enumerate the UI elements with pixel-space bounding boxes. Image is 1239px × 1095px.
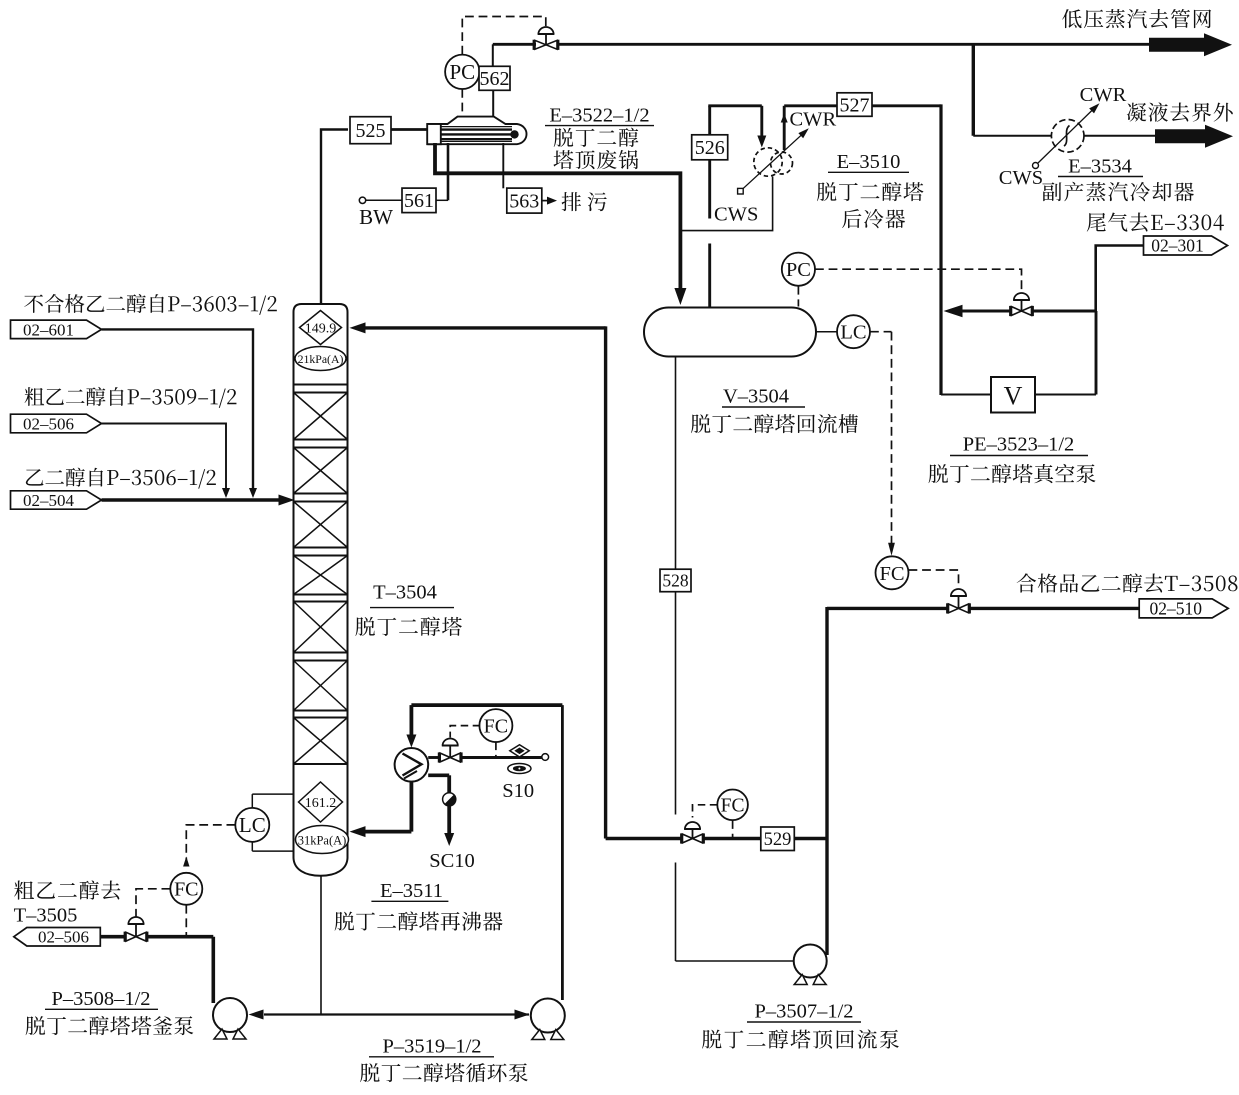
label: EG from P-3506-1/2 (26, 468, 216, 489)
instrument signal: FC to bottoms valve (dashed) (136, 889, 170, 917)
pipe: E-3511 outlet back to column bottom with arrow (409, 782, 413, 832)
svg-text:P–3508–1/2: P–3508–1/2 (51, 988, 150, 1010)
bottoms pump P-3508-1/2 (213, 998, 247, 1032)
pipe: column bottom outlet to pumps suction header (320, 876, 322, 1015)
stream box 02-506 (feed inlet) (11, 414, 102, 433)
cooler E-3534 (by-product steam cooler) (1051, 120, 1084, 153)
svg-text:02–301: 02–301 (1151, 236, 1204, 256)
reboiler E-3511 (circle with chevron) (395, 748, 429, 782)
svg-text:21kPa(A): 21kPa(A) (298, 352, 344, 366)
svg-text:T–3505: T–3505 (14, 905, 78, 927)
label: crude EG from P-3509-1/2 (25, 387, 237, 408)
cooling water annotation on E-3510 (CWS-CWR diagonal) (738, 188, 744, 194)
line number box 526 (692, 135, 728, 160)
kettle channel head (left box) (427, 124, 441, 144)
pipe: P-3519 discharge riser to reboiler E-3511 (561, 705, 564, 1000)
svg-text:T–3504: T–3504 (373, 581, 437, 603)
pipe: BW (boiler water) inlet to kettle (359, 197, 365, 203)
svg-text:527: 527 (840, 94, 870, 116)
pipe: reflux line from riser through 529 and valve to column top (795, 837, 828, 840)
line number box 563 (507, 188, 542, 213)
svg-text:LC: LC (840, 322, 866, 344)
pipe: kettle condensate to reflux drum V-3504 (435, 143, 680, 290)
instrument PC on vacuum system (782, 253, 815, 286)
utility station symbol S10 (diamond above line) (510, 745, 529, 757)
svg-text:E–3511: E–3511 (380, 880, 443, 902)
kettle exchanger E-3522-1/2 (waste heat boiler) (428, 117, 526, 145)
line number box 528 (660, 569, 691, 592)
svg-text:PC: PC (786, 259, 811, 281)
svg-text:CWS: CWS (714, 204, 758, 226)
node: pressure ellipse 21kPa(A) at column top (295, 347, 346, 371)
pipe: condensate out of E-3534 (1084, 135, 1157, 137)
pipe: vacuum suction line down to pump PE-3523 (939, 104, 942, 395)
instrument signal: FC to pipe tap (dashed) (185, 905, 187, 935)
pipe: 02-506 feed line (102, 424, 227, 491)
svg-text:02–510: 02–510 (1149, 599, 1202, 619)
stream box 02-301 (tail gas outlet) (1144, 236, 1228, 255)
svg-text:528: 528 (662, 571, 689, 591)
pipe: product line to T-3508 (827, 607, 949, 610)
pipe: vacuum recycle line (pump discharge back to suction) (1032, 310, 1097, 313)
svg-text:02–506: 02–506 (38, 928, 89, 947)
svg-text:529: 529 (764, 830, 792, 850)
svg-text:31kPa(A): 31kPa(A) (298, 833, 347, 847)
svg-text:E–3534: E–3534 (1068, 156, 1132, 178)
utility station symbol S10 (ellipse below line) (508, 764, 531, 774)
pipe: kettle blowdown to 563 (502, 143, 504, 188)
vacuum pump V box PE-3523-1/2 (991, 377, 1035, 413)
instrument signal: PC to vacuum control valve (dashed) (815, 269, 1022, 292)
off-page fat arrow: condensate to battery limit (1155, 125, 1233, 148)
instrument signal: LC to FC cascade (dashed) (186, 825, 235, 869)
instrument FC on steam line (479, 709, 512, 742)
pipe: tail gas line from vacuum pump to 02-301 (1096, 246, 1144, 313)
svg-text:525: 525 (356, 120, 386, 142)
stream box 02-601 (feed inlet) (11, 320, 102, 339)
circulation pump P-3519-1/2 (531, 999, 565, 1033)
svg-text:E–3510: E–3510 (837, 151, 901, 173)
label: qualified EG to T-3508 (1017, 573, 1238, 592)
label: tail gas to E-3304 (1087, 212, 1224, 231)
node: temperature diamond 149.9 at column top (300, 311, 342, 345)
column T-3504 shell (294, 304, 348, 876)
node: temperature diamond 161.2 at column bottom (299, 782, 343, 822)
line number box 525 (350, 117, 391, 144)
instrument FC on product line (876, 556, 909, 589)
control valve on bottoms line (128, 917, 143, 924)
label: condensate to outside battery limit (1127, 102, 1233, 121)
off-page fat arrow: LP steam to pipe network (1149, 33, 1232, 56)
svg-text:CWS: CWS (999, 167, 1043, 189)
svg-text:LC: LC (239, 813, 266, 837)
steam trap on SC10 line (443, 793, 456, 806)
svg-text:02–504: 02–504 (23, 491, 75, 510)
column packing sections with X pattern (294, 384, 348, 386)
line number box 561 (402, 188, 436, 213)
instrument FC on reflux line (717, 790, 748, 821)
instrument PC-562 (pressure controller) (445, 55, 479, 89)
stream box 02-506 (bottoms outlet, left pointing) (14, 928, 101, 947)
svg-text:561: 561 (404, 190, 434, 212)
stream box 02-510 (product outlet) (1139, 599, 1228, 618)
pipe 526: drum vapor riser to E-3510 header (with crossing break) (708, 106, 711, 159)
pipe: 02-601 feed line (102, 329, 254, 490)
pipe: steam branch down to E-3534 (972, 43, 975, 136)
pipe: reflux return into column top with arrow (364, 326, 606, 329)
svg-text:PE–3523–1/2: PE–3523–1/2 (963, 434, 1075, 456)
svg-text:562: 562 (480, 68, 510, 90)
pipe: main feed line into column (102, 498, 281, 502)
instrument LC at column bottom with standpipe taps (252, 793, 293, 795)
instrument LC on drum (816, 331, 838, 333)
svg-text:563: 563 (509, 190, 539, 212)
instrument signal: PC to kettle dome (dashed) (461, 89, 463, 116)
label: LP steam to pipe network (1062, 9, 1211, 28)
pipe: header into cooler E-3510 (708, 104, 762, 107)
svg-text:FC: FC (879, 563, 904, 585)
line number box 562 (479, 66, 510, 90)
svg-text:526: 526 (695, 137, 725, 159)
line number box 527 (837, 93, 872, 117)
pipe: E-3510 outlet riser and header 527 to vacuum line (783, 106, 786, 150)
svg-text:SC10: SC10 (429, 850, 475, 872)
instrument signal: FC to steam valve (dashed) (450, 726, 480, 738)
svg-text:BW: BW (359, 205, 393, 229)
svg-text:P–3507–1/2: P–3507–1/2 (754, 1001, 853, 1023)
svg-text:02–506: 02–506 (23, 414, 74, 433)
node: pressure ellipse 31kPa(A) at column bottom (296, 826, 349, 854)
control valve PV-562 on LP steam line (538, 27, 553, 34)
control valve on product line (951, 589, 966, 596)
svg-text:S10: S10 (502, 780, 534, 802)
svg-text:FC: FC (484, 715, 508, 737)
svg-text:P–3519–1/2: P–3519–1/2 (382, 1035, 481, 1057)
arrow and label: blowdown 排污 (542, 200, 549, 202)
svg-text:02–601: 02–601 (23, 320, 74, 339)
kettle tube bundle (441, 128, 512, 130)
instrument signal: FC to product valve (dashed) (909, 570, 959, 588)
stream box 02-504 (feed inlet) (11, 491, 102, 509)
control valve on vacuum recycle line (1014, 293, 1029, 300)
instrument signal: drum LC to product FC (dashed) (870, 331, 892, 333)
pipe: vacuum pump loop (1095, 311, 1098, 395)
svg-text:V–3504: V–3504 (723, 386, 789, 408)
svg-text:FC: FC (721, 795, 745, 816)
control valve on reflux line (685, 822, 700, 829)
svg-text:E–3522–1/2: E–3522–1/2 (549, 104, 649, 126)
svg-text:CWR: CWR (1080, 84, 1127, 106)
control valve on steam line (443, 739, 458, 746)
line number box 529 (761, 827, 795, 851)
instrument FC on bottoms line (170, 873, 202, 905)
svg-text:149.9: 149.9 (305, 321, 337, 336)
pipe: steam supply S10 to reboiler (428, 756, 440, 759)
instrument signal: PC to control valve PV-562 (dashed) (462, 17, 546, 55)
instrument signal: FC to reflux valve (dashed) (693, 805, 718, 818)
pipe: kettle steam outlet riser through box 562 (492, 90, 494, 116)
label: crude EG to T-3505 (14, 880, 120, 899)
pipe: drum outlet 528 down to reflux pump (with crossing break) (675, 357, 677, 570)
pipe: pump discharge riser to product line (825, 607, 828, 955)
instrument signal: PC to drum (dashed) (797, 286, 799, 307)
svg-text:PC: PC (449, 60, 475, 84)
pipe: bottoms line from pump to 02-506 (100, 935, 126, 939)
svg-text:V: V (1004, 382, 1023, 411)
cooling water annotation arrow on E-3534 (CWS to CWR) (1033, 163, 1039, 169)
pipe: LP steam header to pipe network (493, 43, 536, 46)
reflux pump P-3507-1/2 (794, 945, 827, 978)
svg-text:CWR: CWR (790, 109, 837, 131)
cooler E-3510 (aftercooler, two dashed circles) (754, 148, 782, 176)
pipe: E-3510 condensate drain to drum inlet line (681, 177, 773, 231)
reflux drum V-3504 (horizontal vessel) (644, 308, 816, 357)
svg-text:FC: FC (174, 879, 198, 901)
pipe: SC10 steam condensate from reboiler (428, 773, 449, 777)
svg-text:161.2: 161.2 (305, 796, 337, 811)
pipe: column overhead vapor line to kettle E-3522 (321, 130, 348, 306)
label: off-spec EG from P-3603-1/2 (24, 294, 277, 315)
